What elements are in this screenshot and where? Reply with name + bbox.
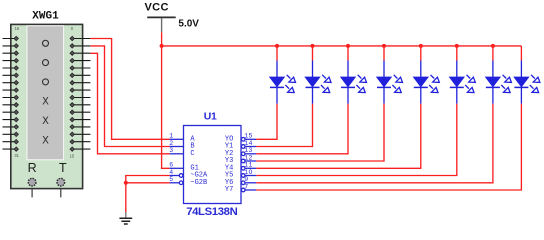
svg-text:3: 3 (169, 147, 173, 154)
svg-text:2: 2 (169, 140, 173, 147)
svg-text:5.0V: 5.0V (178, 18, 199, 29)
svg-text:~G2B: ~G2B (190, 179, 207, 187)
svg-text:C: C (190, 150, 194, 158)
svg-text:16: 16 (15, 26, 20, 31)
svg-text:X: X (42, 116, 49, 128)
svg-text:T: T (59, 161, 67, 175)
svg-text:7: 7 (244, 183, 248, 190)
svg-text:6: 6 (169, 162, 173, 169)
svg-text:9: 9 (244, 176, 248, 183)
svg-text:1: 1 (169, 133, 173, 140)
svg-text:XWG1: XWG1 (32, 11, 59, 23)
svg-text:1O: 1O (244, 169, 253, 176)
svg-text:X: X (42, 97, 49, 109)
svg-text:15: 15 (70, 153, 75, 158)
svg-text:74LS138N: 74LS138N (186, 206, 237, 218)
svg-text:5: 5 (169, 176, 173, 183)
svg-text:15: 15 (244, 133, 253, 140)
svg-text:X: X (42, 135, 49, 147)
svg-text:4: 4 (169, 169, 173, 176)
svg-text:VCC: VCC (145, 2, 169, 14)
svg-text:11: 11 (244, 162, 253, 169)
svg-text:Y7: Y7 (225, 186, 233, 194)
svg-text:12: 12 (244, 154, 253, 161)
svg-text:R: R (28, 161, 37, 175)
svg-text:U1: U1 (204, 112, 217, 123)
svg-text:13: 13 (244, 147, 253, 154)
svg-text:31: 31 (14, 153, 19, 158)
svg-text:14: 14 (244, 140, 253, 147)
